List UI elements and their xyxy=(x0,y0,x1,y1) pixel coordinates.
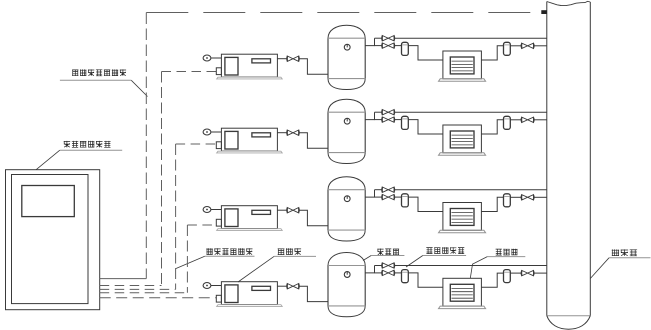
main pipe (主管道) vertical header xyxy=(547,1,591,329)
tank 3 outlet and bypass riser xyxy=(365,190,374,197)
branch valve V3c xyxy=(382,194,395,199)
dryer D1 (干燥机) xyxy=(439,51,486,81)
air compressor 3 control tab xyxy=(216,219,221,226)
air compressor 2 inner cell xyxy=(225,131,238,149)
pipeline filter F3a (管道过滤器) xyxy=(402,194,409,207)
pipeline filter F4a (管道过滤器) xyxy=(402,270,409,283)
valve V1a after compressor 1 xyxy=(287,56,299,61)
air compressor 4 base plate xyxy=(217,305,283,307)
outlet valve V2d xyxy=(521,117,534,122)
pressure sensor tap on main pipe xyxy=(541,10,547,14)
label: pipeline filter (管道过滤器) xyxy=(406,247,466,267)
air compressor 2 body xyxy=(221,128,277,151)
air compressor 2 motor link wire xyxy=(211,131,222,133)
pipe to outlet valve row 4 xyxy=(510,272,521,274)
bypass pipe to main header row 4 xyxy=(394,265,547,267)
bypass valve V3b xyxy=(382,187,395,192)
bypass top pipe row 2 xyxy=(375,111,383,113)
pipe to filter row 4 xyxy=(394,272,401,274)
pipe from valve to tank 3 xyxy=(299,210,328,226)
air compressor M1 motor circle xyxy=(203,55,211,61)
pipe to outlet valve row 2 xyxy=(510,119,521,121)
label: pressure feedback line (压力检测反馈线) xyxy=(60,69,148,96)
bypass top pipe row 3 xyxy=(375,189,383,191)
pipe filter to dryer row 2 xyxy=(408,120,443,134)
dryer D3 (干燥机) xyxy=(439,203,486,233)
air compressor 3 inner cell xyxy=(225,209,238,227)
air compressor 1 outlet pipe xyxy=(277,58,287,60)
pipe filter to dryer row 1 xyxy=(408,46,443,60)
pipe from valve to tank 4 xyxy=(299,286,328,301)
pipe dryer to filter F1b row 1 xyxy=(481,46,503,60)
air compressor 1 motor link wire xyxy=(211,57,222,59)
outlet valve V3d xyxy=(521,195,534,200)
pipe into main header row 3 xyxy=(534,196,547,198)
air compressor M2 motor circle xyxy=(203,129,211,135)
label: compressor control line (空压机控制线) xyxy=(176,248,255,268)
pipe dryer to filter F3b row 3 xyxy=(481,197,503,211)
compressor 4 control dashed line xyxy=(100,297,217,299)
pipe to outlet valve row 3 xyxy=(510,196,521,198)
tank 1 outlet and bypass riser xyxy=(365,38,374,45)
air compressor 2 control tab xyxy=(216,142,221,149)
compressor 2 control dashed line xyxy=(100,144,217,289)
air tank T1 (储气罐) xyxy=(328,25,365,89)
dryer D2 (干燥机) xyxy=(439,125,486,155)
valve V2a after compressor 2 xyxy=(287,130,299,135)
air compressor 2 base plate xyxy=(217,151,283,153)
bottom branch pipe row 3 xyxy=(375,196,383,198)
branch valve V1c xyxy=(382,43,395,48)
pressure feedback dashed line: into cabinet xyxy=(100,278,147,280)
air tank T4 (储气罐) xyxy=(328,253,365,317)
air compressor 1 body xyxy=(221,54,277,77)
bottom branch pipe row 4 xyxy=(375,272,383,274)
air compressor 2 outlet pipe xyxy=(277,132,287,134)
dryer D4 (干燥机) xyxy=(439,278,486,308)
label: dryer (干燥机) xyxy=(470,249,525,279)
pipe into main header row 1 xyxy=(534,45,547,47)
pipeline filter F1a (管道过滤器) xyxy=(402,42,409,55)
outlet valve V4d xyxy=(521,270,534,275)
air compressor 1 control tab xyxy=(216,68,221,75)
air compressor 2 vent slot xyxy=(252,133,271,137)
pressure feedback dashed line: top horizontal run xyxy=(146,12,541,14)
label: air compressor (空压机) xyxy=(238,248,316,282)
label: main pipe (主管道) xyxy=(590,249,650,278)
bypass valve V4b xyxy=(382,263,395,268)
compressor 1 control dashed line xyxy=(100,72,217,286)
branch valve V2c xyxy=(382,117,395,122)
pressure feedback dashed line: vertical drop xyxy=(145,13,147,279)
control cabinet inner box xyxy=(12,175,89,304)
compressor 3 control dashed line xyxy=(100,225,217,293)
pipeline filter F2b xyxy=(504,116,511,129)
pipe dryer to filter F4b row 4 xyxy=(481,273,503,287)
air compressor 4 vent slot xyxy=(252,286,271,290)
bypass top pipe row 1 xyxy=(375,37,383,39)
pipe filter to dryer row 3 xyxy=(408,197,443,211)
air compressor 3 base plate xyxy=(217,229,283,231)
bypass top pipe row 4 xyxy=(375,265,383,267)
air compressor 3 outlet pipe xyxy=(277,209,287,211)
pipe into main header row 4 xyxy=(534,272,547,274)
bypass pipe to main header row 2 xyxy=(394,111,547,113)
control cabinet outer box xyxy=(6,170,100,310)
valve V3a after compressor 3 xyxy=(287,208,299,213)
air compressor 4 control tab xyxy=(216,295,221,302)
label: automation control cabinet (自动化控制柜) xyxy=(36,141,122,170)
branch valve V4c xyxy=(382,270,395,275)
pipe to filter row 3 xyxy=(394,196,401,198)
air compressor 1 inner cell xyxy=(225,57,238,75)
pipe from valve to tank 2 xyxy=(299,133,328,149)
air compressor 1 vent slot xyxy=(252,59,271,63)
air compressor 4 inner cell xyxy=(225,285,238,303)
air compressor M3 motor circle xyxy=(203,207,211,213)
pipe from valve to tank 1 xyxy=(299,59,328,75)
air compressor M4 motor circle xyxy=(203,283,211,289)
air compressor 1 base plate xyxy=(217,77,283,79)
air compressor 4 body xyxy=(221,282,277,305)
air compressor 4 outlet pipe xyxy=(277,285,287,287)
control cabinet screen xyxy=(22,186,75,217)
pipe into main header row 2 xyxy=(534,119,547,121)
pipeline filter F3b xyxy=(504,194,511,207)
bottom branch pipe row 2 xyxy=(375,119,383,121)
air compressor 4 motor link wire xyxy=(211,285,222,287)
pipe filter to dryer row 4 xyxy=(408,273,443,287)
bypass pipe to main header row 1 xyxy=(394,37,547,39)
outlet valve V1d xyxy=(521,43,534,48)
bypass valve V2b xyxy=(382,110,395,115)
bypass valve V1b xyxy=(382,36,395,41)
valve V4a after compressor 4 xyxy=(287,284,299,289)
pipeline filter F2a (管道过滤器) xyxy=(402,116,409,129)
pipe dryer to filter F2b row 2 xyxy=(481,120,503,134)
bottom branch pipe row 1 xyxy=(375,45,383,47)
label: air tank (储气罐) xyxy=(363,249,404,261)
tank 2 outlet and bypass riser xyxy=(365,112,374,119)
pipe to filter row 1 xyxy=(394,45,401,47)
bypass pipe to main header row 3 xyxy=(394,189,547,191)
pipe to outlet valve row 1 xyxy=(510,45,521,47)
air tank T2 (储气罐) xyxy=(328,99,365,163)
pipe to filter row 2 xyxy=(394,119,401,121)
pipeline filter F1b xyxy=(504,42,511,55)
air compressor 3 vent slot xyxy=(252,210,271,214)
pipeline filter F4b xyxy=(504,270,511,283)
air tank T3 (储气罐) xyxy=(328,177,365,241)
air compressor 3 motor link wire xyxy=(211,209,222,211)
air compressor 3 body xyxy=(221,206,277,229)
tank 4 outlet and bypass riser xyxy=(365,266,374,273)
